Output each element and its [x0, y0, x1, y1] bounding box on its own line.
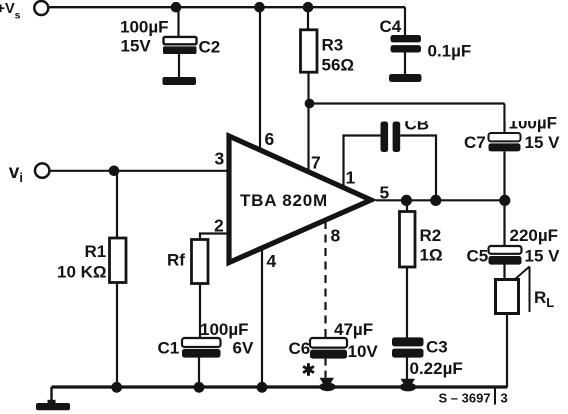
wire C4 top lead: [404, 7, 406, 35]
svg-text:C5: C5: [467, 247, 489, 266]
terminal vi: [9, 162, 50, 185]
svg-text:C4: C4: [380, 17, 402, 36]
pin 6 lead: [259, 7, 261, 150]
wire RL bottom lead: [506, 314, 508, 388]
svg-text:10V: 10V: [348, 342, 379, 361]
svg-text:0.1µF: 0.1µF: [428, 42, 472, 61]
wire R3 bottom lead / pin 7 lead: [307, 72, 309, 171]
wire C2 top lead: [177, 7, 179, 36]
svg-text:C3: C3: [426, 338, 448, 357]
wire R2 bottom lead: [406, 267, 408, 338]
arrow junction C3 / ground rail: [401, 379, 416, 391]
ground bar below C4: [389, 74, 422, 82]
resistor R2: [400, 212, 443, 268]
load resistor RL: [496, 267, 555, 314]
svg-text:100µF: 100µF: [120, 18, 169, 37]
arrow junction C6 / ground rail: [320, 378, 335, 390]
wire C2 bottom lead: [178, 54, 180, 78]
resistor R3: [301, 30, 355, 75]
svg-text:10 KΩ: 10 KΩ: [57, 263, 107, 282]
terminal +Vs: [0, 1, 48, 22]
wire Rf bottom lead: [199, 284, 201, 340]
wire C5 top lead: [503, 201, 505, 247]
node junction R1 / input: [109, 166, 120, 177]
asterisk mark: [304, 365, 313, 375]
wire C5 bottom lead: [503, 265, 505, 281]
wire C3 bottom lead: [406, 358, 408, 381]
wire R1 top lead: [116, 171, 118, 239]
resistor R1: [57, 238, 126, 283]
svg-text:220µF: 220µF: [510, 226, 559, 245]
wire output pin 5: [376, 199, 505, 201]
wire C4 bottom lead: [404, 53, 406, 75]
op-amp U1 TBA 820M: [229, 136, 371, 263]
capacitor C3: [392, 337, 463, 378]
pin 4 lead: [261, 247, 263, 388]
wire R3 top lead: [307, 7, 309, 30]
svg-text:5: 5: [380, 183, 390, 203]
svg-text:C7: C7: [464, 133, 486, 152]
svg-text:47µF: 47µF: [334, 320, 373, 339]
wire C7 top lead: [503, 104, 505, 134]
capacitor C5: [467, 226, 561, 266]
wire R2 top lead: [406, 201, 408, 213]
svg-text:3: 3: [215, 149, 225, 169]
svg-text:1Ω: 1Ω: [420, 246, 443, 265]
svg-text:7: 7: [311, 153, 321, 173]
svg-text:4: 4: [267, 251, 277, 271]
svg-text:R1: R1: [85, 242, 107, 261]
svg-text:15V: 15V: [121, 36, 152, 55]
node junction R3 / top rail: [303, 2, 314, 13]
svg-text:6V: 6V: [233, 339, 254, 358]
node junction C2 / top rail: [171, 2, 182, 13]
capacitor C4: [380, 17, 472, 61]
wire C7 bottom lead: [503, 151, 505, 200]
ground bar below C2: [163, 77, 197, 85]
node junction pin4 / ground rail: [257, 382, 268, 393]
wire ground rail: [52, 385, 508, 388]
node junction CB / output: [430, 195, 441, 206]
wire C6 bottom dashed lead: [324, 359, 326, 379]
node junction R3 / mid rail: [305, 99, 315, 109]
pin 8 dashed lead: [324, 221, 326, 338]
svg-text:56Ω: 56Ω: [322, 56, 355, 75]
wire CB right lead: [400, 136, 436, 201]
node junction C7-C5 / output: [499, 195, 510, 206]
svg-text:R3: R3: [322, 36, 344, 55]
wire R1 bottom lead: [116, 283, 118, 388]
capacitor C7: [464, 105, 560, 152]
pin 1 lead: [344, 136, 381, 187]
svg-text:6: 6: [265, 129, 275, 149]
svg-text:Rf: Rf: [167, 251, 185, 270]
capacitor C2: [120, 18, 220, 57]
svg-text:3: 3: [501, 391, 508, 406]
svg-text:C6: C6: [289, 339, 311, 358]
node junction C1 / ground rail: [194, 382, 205, 393]
svg-text:S – 3697: S – 3697: [439, 391, 491, 406]
pin 2 lead: [200, 234, 229, 241]
wire top supply rail: [49, 6, 405, 8]
svg-text:C1: C1: [158, 339, 180, 358]
figure number S-3697/3: [439, 389, 508, 406]
capacitor C1: [158, 320, 254, 358]
node junction R1 / ground rail: [111, 382, 122, 393]
node junction pin6 / top rail: [254, 2, 265, 13]
svg-text:2: 2: [214, 216, 224, 236]
svg-text:15 V: 15 V: [525, 133, 561, 152]
svg-text:100µF: 100µF: [200, 320, 249, 339]
svg-text:0.22µF: 0.22µF: [410, 359, 463, 378]
wire C1 bottom lead: [198, 358, 200, 388]
node junction R2 / output: [401, 195, 412, 206]
capacitor CB (bootstrap): [381, 105, 439, 152]
wire input to pin 3: [49, 170, 229, 172]
svg-text:TBA 820M: TBA 820M: [240, 191, 328, 210]
svg-text:1: 1: [346, 168, 356, 188]
svg-text:8: 8: [331, 226, 341, 246]
ground symbol: [36, 387, 70, 410]
capacitor C6: [289, 320, 379, 361]
svg-text:R2: R2: [420, 226, 442, 245]
wire mid rail (R3 to C7): [309, 102, 505, 104]
svg-text:C2: C2: [199, 38, 221, 57]
svg-text:15 V: 15 V: [525, 247, 561, 266]
resistor Rf: [167, 240, 208, 284]
